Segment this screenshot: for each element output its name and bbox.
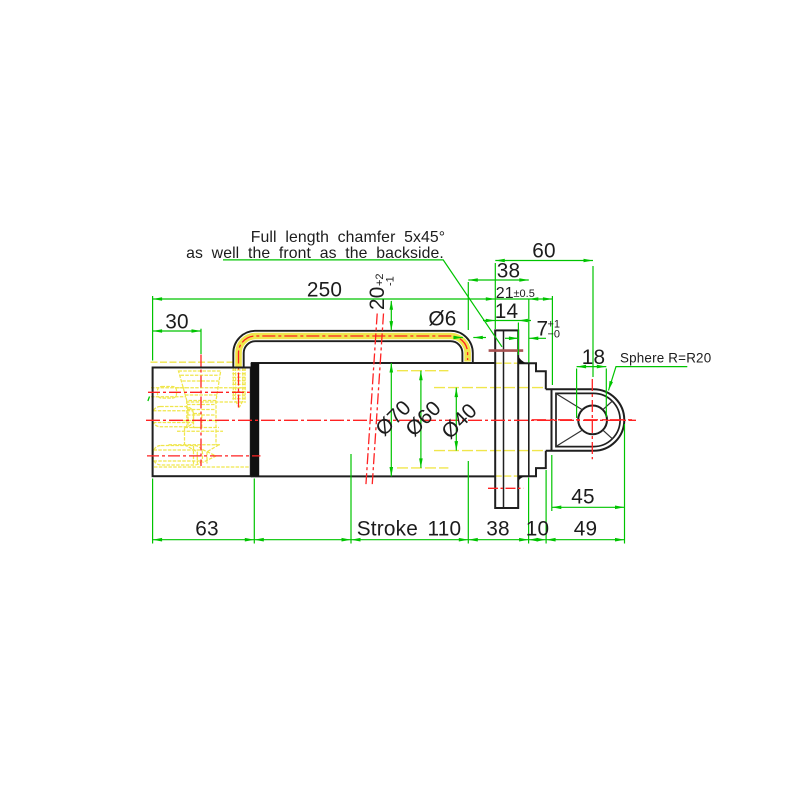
eye vertical centerline (591, 379, 593, 459)
svg-text:Sphere R=R20: Sphere R=R20 (620, 351, 711, 366)
bowl slant left (185, 445, 198, 452)
dim line 14 (483, 320, 531, 322)
tube centerline red (239, 336, 468, 408)
ext 18 left (576, 369, 578, 419)
svg-text:10: 10 (526, 518, 550, 541)
ext 60 left (494, 263, 496, 329)
ext chain 10-49 (545, 470, 547, 544)
ext 45 left (551, 455, 553, 511)
hidden line above cap top (151, 361, 234, 363)
funnel bar 5 long (186, 401, 246, 403)
dim line 250/21 (153, 298, 553, 300)
tiny green tick left edge (148, 397, 150, 402)
weld triangle flange bottom (518, 476, 525, 481)
dim line Ø40 vertical (455, 388, 457, 451)
bowl slant right (207, 445, 219, 452)
eye top line (546, 388, 594, 390)
upper port centerline (148, 391, 251, 393)
TUBE yellow fill band (239, 336, 468, 368)
ext chain stroke right (467, 461, 469, 544)
dim line 60 (495, 260, 593, 262)
svg-text:Stroke 110: Stroke 110 (357, 518, 462, 541)
barrel top line (251, 362, 495, 364)
svg-text:Ø6: Ø6 (428, 308, 456, 331)
dim line 38 top (468, 279, 529, 281)
CAP-INTERNALS yellow hidden detail (151, 368, 251, 468)
funnel bar 1 (181, 374, 220, 376)
ext 250 right (551, 296, 553, 385)
eye outer arc (594, 389, 625, 451)
ext chain 38-10 (528, 478, 530, 544)
ext chain body left (152, 479, 154, 544)
funnel bar 4 (185, 394, 217, 396)
eye left face (551, 389, 553, 451)
dim o6 right segment (473, 337, 486, 339)
svg-text:±0.5: ±0.5 (514, 288, 535, 300)
rod Ø40 hidden bottom (434, 450, 546, 452)
RED-GROUP centerlines (146, 314, 636, 489)
cap bottom hidden line (154, 466, 251, 468)
tube outer outline (233, 331, 472, 368)
lower plug inner vertical (193, 446, 195, 465)
rod Ø40 hidden top (434, 387, 546, 389)
weld band at cap joint (251, 363, 260, 476)
bowl bar wide 2 (169, 444, 221, 446)
dim 7 right segment (529, 337, 546, 339)
main axis centerline (146, 419, 636, 421)
flange chamfer line (503, 330, 505, 508)
flange bore hidden bottom stub (495, 475, 518, 477)
svg-text:45: 45 (571, 486, 595, 509)
thread column left (186, 401, 188, 428)
column bar 4 (183, 420, 219, 422)
ARROWHEADS (153, 259, 625, 542)
piston position line b (372, 314, 383, 487)
svg-text:20: 20 (366, 286, 389, 310)
BODY-GROUP black outlines (153, 330, 625, 508)
mid plug inner vertical (187, 407, 189, 427)
upper plug line top (151, 387, 186, 389)
ext 14 right (517, 323, 519, 356)
flange chamfer mark maroon (489, 349, 524, 352)
ext chain stroke left (350, 454, 352, 544)
flange hole centerline bottom (488, 487, 523, 489)
TEXT-GROUP (165, 229, 711, 541)
svg-text:38: 38 (497, 260, 521, 283)
svg-text:30: 30 (165, 311, 189, 334)
ext 45-49 right (624, 424, 626, 544)
flange bore hidden top stub (495, 362, 518, 364)
ext body left (152, 296, 154, 361)
svg-text:14: 14 (495, 300, 519, 323)
end cap rectangle (153, 368, 251, 477)
lower plug cone (203, 450, 217, 463)
ext 60 right (592, 266, 594, 377)
dim line 30 (153, 330, 201, 332)
svg-text:7: 7 (537, 317, 549, 340)
weld triangle flange top (518, 356, 526, 364)
funnel bar 2 (182, 380, 218, 382)
bottom chain dim line (153, 539, 625, 541)
gland step profile top (518, 363, 546, 389)
YELLOW-GROUP (151, 362, 546, 476)
dim line 45 (552, 506, 625, 508)
lower plug line top (154, 449, 203, 451)
lower plug body (153, 446, 203, 466)
dim o6 left segment (454, 337, 463, 339)
upper plug body (158, 387, 177, 399)
gland step profile bottom (518, 451, 546, 477)
eye bearing diagonals (556, 394, 612, 447)
note leader underline (223, 260, 502, 347)
svg-text:Full length chamfer 5x45°: Full length chamfer 5x45° (251, 229, 445, 246)
svg-text:18: 18 (582, 346, 606, 369)
ext port center (200, 329, 202, 354)
svg-text:63: 63 (195, 518, 219, 541)
dim line Ø60 vertical (420, 371, 422, 468)
foot column right (206, 452, 208, 464)
port vertical centerline (200, 355, 202, 467)
piston position line a (366, 314, 377, 487)
tube thread ladder left inner (235, 368, 237, 402)
mid plug body (152, 407, 193, 427)
ladder cone left (236, 401, 240, 408)
tube inner outline (244, 341, 463, 367)
ladder cone right (239, 401, 243, 408)
column bar 5 (185, 427, 220, 429)
svg-text:−0: −0 (548, 329, 561, 341)
thread column right (215, 401, 217, 446)
dim text O60 rotated (401, 397, 445, 441)
eye horizontal centerline (532, 419, 636, 421)
sphere leader (609, 367, 688, 391)
bore Ø60 hidden top (397, 370, 448, 372)
column bar 3 (187, 414, 216, 416)
dim 7 left segment (505, 337, 518, 339)
collar shoulder vertical (528, 363, 530, 476)
svg-text:250: 250 (307, 278, 342, 301)
port funnel outline (179, 371, 221, 401)
dim text 20+2-1 rotated (366, 273, 397, 310)
ext 21-38 right (528, 299, 530, 363)
funnel bar 3 long (176, 387, 246, 389)
svg-text:49: 49 (574, 518, 598, 541)
eye bottom line (546, 450, 594, 452)
dim text O40 rotated (437, 399, 481, 443)
eye pin hole (578, 406, 607, 435)
bore Ø60 hidden bottom (397, 467, 448, 469)
lower port centerline (147, 455, 261, 457)
dim text O70 rotated (371, 396, 415, 440)
mid plug line top (153, 410, 194, 412)
svg-text:as well the front as the backs: as well the front as the backside. (186, 245, 444, 262)
barrel bottom line (251, 475, 495, 477)
eye inner contour (556, 393, 620, 446)
ext 20dim tube (390, 301, 392, 331)
column bar 2 (187, 409, 216, 411)
ladder rungs (232, 370, 246, 399)
svg-text:38: 38 (486, 518, 510, 541)
tube thread ladder right (244, 368, 246, 402)
GREEN dimension lines (153, 260, 688, 544)
lower plug line bottom (154, 460, 203, 462)
dim line 18 (577, 366, 607, 368)
svg-text:60: 60 (532, 240, 556, 263)
ext 38 left tube center (467, 282, 469, 330)
ext 18 right (605, 369, 607, 418)
ext chain weld (253, 479, 255, 544)
bowl bar wide 1 (177, 430, 223, 432)
bowl left wall (184, 428, 186, 445)
flange plate (495, 330, 518, 508)
upper plug line bottom (151, 396, 186, 398)
tube thread ladder left (232, 368, 234, 402)
foot column left (196, 452, 198, 464)
tube thread ladder right inner (242, 368, 244, 402)
dim line Ø70 vertical (390, 363, 392, 477)
svg-text:-1: -1 (385, 276, 397, 286)
mid plug neck (194, 414, 202, 428)
column bar 1 (187, 404, 216, 406)
mid plug line bottom (153, 422, 194, 424)
